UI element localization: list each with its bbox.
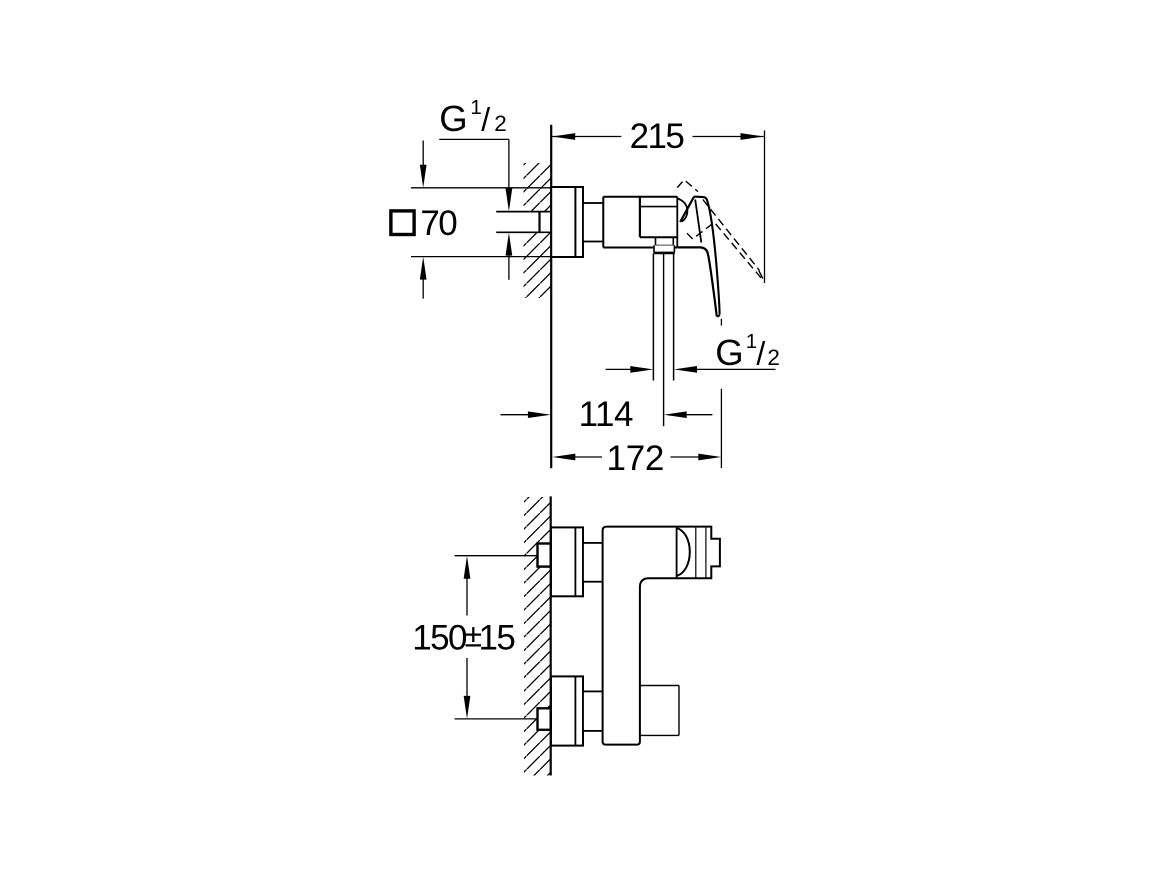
svg-text:/: / <box>481 102 490 138</box>
svg-text:1: 1 <box>746 330 757 353</box>
svg-text:G: G <box>715 332 743 373</box>
svg-text:2: 2 <box>494 111 507 136</box>
svg-text:172: 172 <box>607 439 665 478</box>
svg-text:G: G <box>439 98 467 139</box>
svg-text:/: / <box>756 336 765 372</box>
svg-text:15: 15 <box>479 618 515 657</box>
svg-text:1: 1 <box>470 96 481 119</box>
svg-text:114: 114 <box>579 395 633 434</box>
svg-text:215: 215 <box>630 117 684 156</box>
svg-text:150: 150 <box>412 618 467 657</box>
svg-text:70: 70 <box>420 204 457 243</box>
svg-text:2: 2 <box>767 345 780 370</box>
